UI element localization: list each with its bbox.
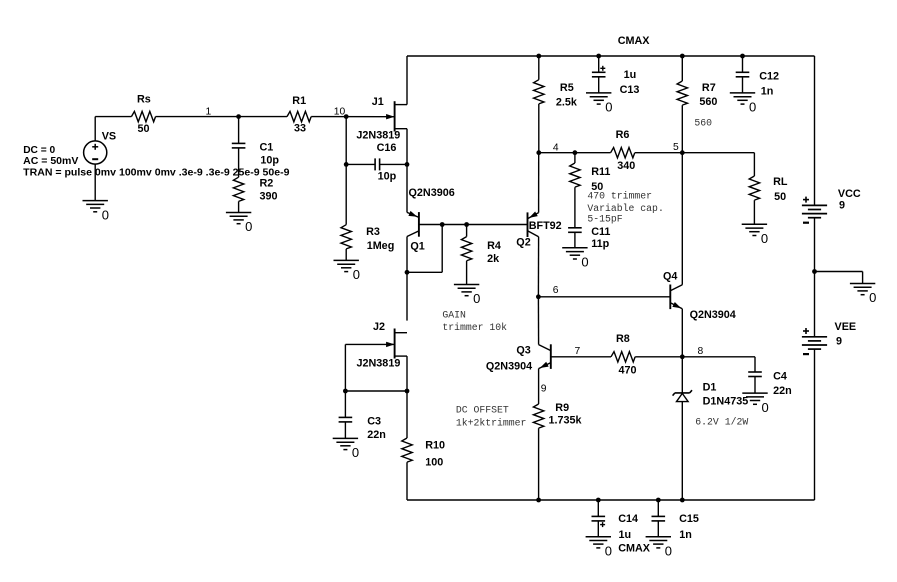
svg-text:470: 470 bbox=[619, 364, 637, 376]
svg-text:9: 9 bbox=[839, 200, 845, 212]
svg-text:DC OFFSET: DC OFFSET bbox=[456, 404, 509, 415]
capacitor C3 bbox=[339, 416, 353, 418]
svg-text:R4: R4 bbox=[487, 240, 501, 252]
svg-text:J1: J1 bbox=[372, 96, 384, 108]
wire Q3 emitter to R9 (node 9) bbox=[538, 369, 540, 404]
svg-text:C4: C4 bbox=[773, 371, 787, 383]
svg-text:DC = 0: DC = 0 bbox=[23, 145, 55, 156]
wire gate junction to J2 source column bbox=[345, 390, 407, 392]
wire VS top riser bbox=[94, 117, 96, 141]
wire D1 to bottom rail bbox=[681, 402, 683, 500]
resistor R2 bbox=[233, 177, 243, 201]
svg-text:C1: C1 bbox=[260, 142, 274, 154]
svg-text:Q2N3904: Q2N3904 bbox=[690, 309, 736, 321]
wire VS to Rs bbox=[95, 116, 131, 118]
junction supply mid bbox=[812, 269, 817, 274]
svg-text:GAIN: GAIN bbox=[442, 309, 466, 320]
wire C14 to ground bbox=[597, 521, 599, 537]
svg-text:R6: R6 bbox=[616, 129, 630, 141]
wire R7 to node 5 bbox=[681, 105, 683, 153]
svg-text:50: 50 bbox=[138, 123, 150, 135]
wire node 8 to D1 bbox=[681, 357, 683, 393]
junction node 1 bbox=[236, 114, 241, 119]
svg-text:0: 0 bbox=[352, 445, 359, 460]
wire J2 gate riser down bbox=[344, 344, 346, 391]
svg-text:R9: R9 bbox=[555, 402, 569, 414]
resistor R1 bbox=[287, 111, 311, 121]
svg-text:22n: 22n bbox=[773, 385, 792, 397]
svg-text:0: 0 bbox=[245, 219, 252, 234]
junction C16 right bbox=[405, 162, 410, 167]
wire VEE to bottom rail bbox=[814, 349, 816, 500]
junction node 6 bbox=[536, 294, 541, 299]
svg-text:1Meg: 1Meg bbox=[367, 240, 395, 252]
wire R10 to bottom rail bbox=[406, 462, 408, 500]
wire node1 to C1 bbox=[238, 117, 240, 144]
ground VS bbox=[83, 200, 108, 202]
svg-text:0: 0 bbox=[605, 543, 612, 558]
svg-text:R10: R10 bbox=[425, 439, 445, 451]
JFET J2 J2N3819 bbox=[394, 329, 396, 359]
svg-text:BFT92: BFT92 bbox=[529, 220, 562, 232]
svg-text:50: 50 bbox=[774, 191, 786, 203]
svg-text:R2: R2 bbox=[260, 178, 274, 190]
wire node 5 to RL bbox=[682, 152, 754, 154]
ground R2 bbox=[226, 212, 251, 214]
junction node 8 bbox=[680, 354, 685, 359]
junction Q1 collector tie bbox=[405, 270, 410, 275]
JFET J1 J2N3819 bbox=[394, 101, 396, 131]
junction bottom C14 bbox=[596, 498, 601, 503]
wire to R4 bbox=[466, 225, 468, 237]
capacitor C1 bbox=[232, 142, 246, 144]
svg-text:C3: C3 bbox=[367, 416, 381, 428]
wire Rs to R1 (node 1) bbox=[156, 116, 288, 118]
capacitor C4 bbox=[748, 371, 762, 373]
ground C13 bbox=[586, 92, 611, 94]
ground C12 bbox=[730, 92, 755, 94]
wire Q1 collector to J2 drain (open stub) bbox=[406, 272, 408, 320]
junction node 5 bbox=[680, 150, 685, 155]
svg-text:10p: 10p bbox=[378, 170, 397, 182]
svg-text:1n: 1n bbox=[679, 529, 692, 541]
svg-text:9: 9 bbox=[541, 384, 547, 395]
svg-text:VS: VS bbox=[102, 130, 116, 142]
wire C12 to ground bbox=[742, 77, 744, 93]
junction bottom D1 bbox=[680, 498, 685, 503]
svg-text:C15: C15 bbox=[679, 513, 699, 525]
svg-text:0: 0 bbox=[665, 543, 672, 558]
wire to C16 bbox=[346, 163, 375, 165]
svg-text:7: 7 bbox=[575, 346, 581, 357]
junction base tie bbox=[440, 222, 445, 227]
wire Q2 collector down to node 6 bbox=[537, 237, 539, 297]
resistor R6 bbox=[611, 148, 635, 158]
svg-text:0: 0 bbox=[869, 290, 876, 305]
svg-text:R3: R3 bbox=[366, 226, 380, 238]
wire node4 to R11 bbox=[574, 153, 576, 163]
svg-text:J2N3819: J2N3819 bbox=[357, 357, 401, 369]
svg-text:0: 0 bbox=[761, 231, 768, 246]
junction C3 top bbox=[343, 389, 348, 394]
zener diode D1 D1N4735 bbox=[673, 390, 692, 395]
wire node 8 to C4 bbox=[682, 356, 755, 358]
svg-text:0: 0 bbox=[749, 100, 756, 115]
wire rail to C12 bbox=[742, 56, 744, 72]
wire C4 to ground bbox=[754, 377, 756, 394]
svg-text:22n: 22n bbox=[367, 429, 386, 441]
resistor R7 bbox=[677, 81, 687, 105]
wire collector tie horizontal bbox=[407, 271, 442, 273]
svg-text:2k: 2k bbox=[487, 253, 500, 265]
ground R3 bbox=[334, 259, 359, 261]
svg-text:33: 33 bbox=[294, 123, 306, 135]
wire node 4 to R6 bbox=[539, 152, 611, 154]
wire C4 top riser bbox=[754, 357, 756, 372]
svg-text:CMAX: CMAX bbox=[618, 35, 651, 47]
svg-text:1n: 1n bbox=[761, 85, 774, 97]
wire right rail top bbox=[814, 56, 816, 205]
ground supply mid bbox=[850, 283, 875, 285]
svg-text:VEE: VEE bbox=[835, 321, 857, 333]
svg-text:C11: C11 bbox=[591, 226, 610, 238]
wire collector tie riser bbox=[441, 225, 443, 273]
wire rail to R5 bbox=[538, 56, 540, 80]
resistor R3 bbox=[341, 225, 351, 249]
resistor R5 bbox=[534, 80, 544, 104]
svg-text:C13: C13 bbox=[620, 84, 640, 96]
wire node10 down to C16 bbox=[345, 117, 347, 165]
svg-text:D1N4735: D1N4735 bbox=[703, 396, 749, 408]
wire junction to R10 bbox=[406, 391, 408, 438]
wire C11 to ground bbox=[574, 232, 576, 248]
wire R5 to node 4 bbox=[538, 104, 540, 153]
svg-text:D1: D1 bbox=[703, 382, 717, 394]
svg-text:340: 340 bbox=[617, 160, 635, 172]
ground C4 bbox=[742, 392, 767, 394]
svg-text:1.735k: 1.735k bbox=[549, 415, 583, 427]
svg-text:AC = 50mV: AC = 50mV bbox=[23, 156, 78, 167]
wire top rail left riser to J1 drain bbox=[406, 56, 408, 105]
junction node 4 bbox=[536, 150, 541, 155]
svg-text:9: 9 bbox=[836, 336, 842, 348]
wire J2 gate left bbox=[345, 343, 394, 345]
wire R3 to ground bbox=[345, 249, 347, 261]
junction bottom R9 bbox=[536, 498, 541, 503]
wire R1 to J1 gate (node 10) bbox=[311, 116, 394, 118]
svg-text:5: 5 bbox=[673, 142, 679, 153]
svg-text:2.5k: 2.5k bbox=[556, 97, 578, 109]
wire VCC to mid junction bbox=[814, 218, 816, 272]
svg-text:560: 560 bbox=[694, 117, 712, 128]
wire C16 left column to R3 bbox=[345, 164, 347, 224]
svg-text:TRAN = pulse 0mv 100mv 0mv .3e: TRAN = pulse 0mv 100mv 0mv .3e-9 .3e-9 2… bbox=[23, 168, 290, 179]
wire node5 down to Q4 collector bbox=[681, 153, 683, 285]
capacitor C12 bbox=[736, 71, 750, 73]
transistor Q2 BFT92 (PNP) bbox=[527, 212, 529, 237]
svg-text:J2: J2 bbox=[373, 321, 385, 333]
svg-text:CMAX: CMAX bbox=[618, 543, 651, 555]
resistor R8 bbox=[611, 352, 635, 362]
svg-text:VCC: VCC bbox=[838, 188, 861, 200]
svg-text:8: 8 bbox=[698, 346, 704, 357]
transistor Q1 Q2N3906 (PNP) bbox=[418, 212, 420, 237]
svg-text:Q1: Q1 bbox=[410, 241, 424, 253]
svg-text:0: 0 bbox=[605, 100, 612, 115]
svg-text:6.2V 1/2W: 6.2V 1/2W bbox=[695, 417, 748, 428]
capacitor C16 bbox=[374, 158, 376, 170]
wire R8 to node 8 bbox=[635, 356, 682, 358]
wire C15 to ground bbox=[657, 521, 659, 537]
svg-text:390: 390 bbox=[260, 191, 278, 203]
resistor R4 bbox=[461, 237, 471, 261]
wire Q3 base to R8 (node 7) bbox=[551, 356, 611, 358]
wire bottom rail bbox=[407, 499, 815, 501]
capacitor C15 bbox=[652, 515, 666, 517]
svg-text:10p: 10p bbox=[260, 154, 279, 166]
wire Q1 base to Q2 base bbox=[419, 224, 528, 226]
wire R11 to C11 bbox=[574, 187, 576, 228]
junction rail C12 bbox=[740, 54, 745, 59]
svg-text:Q2N3906: Q2N3906 bbox=[409, 187, 455, 199]
svg-text:4: 4 bbox=[553, 142, 559, 153]
svg-text:C12: C12 bbox=[759, 70, 779, 82]
svg-text:RL: RL bbox=[773, 176, 788, 188]
svg-text:Q2: Q2 bbox=[516, 236, 530, 248]
junction J2 source / R10 bbox=[405, 389, 410, 394]
svg-text:470 trimmer: 470 trimmer bbox=[587, 190, 652, 201]
resistor R11 bbox=[570, 163, 580, 187]
wire rail to C14 bbox=[597, 500, 599, 516]
svg-text:R5: R5 bbox=[560, 82, 574, 94]
wire R4 to ground bbox=[466, 261, 468, 285]
svg-text:0: 0 bbox=[581, 255, 588, 270]
wire C1 to R2 bbox=[238, 148, 240, 177]
svg-text:1u: 1u bbox=[624, 69, 637, 81]
wire J1 source down bbox=[406, 129, 408, 165]
junction C16 left bbox=[344, 162, 349, 167]
resistor R10 bbox=[402, 438, 412, 462]
wire Q2 emitter riser to node 4 bbox=[538, 153, 540, 213]
svg-text:10: 10 bbox=[334, 107, 346, 118]
wire Q4 emitter to node 8 bbox=[681, 309, 683, 357]
transistor Q4 Q2N3904 (NPN) bbox=[669, 285, 671, 310]
wire node6 down to Q3 collector bbox=[537, 297, 539, 345]
wire RL to ground bbox=[753, 200, 755, 224]
resistor Rs bbox=[131, 111, 155, 121]
ground C11 bbox=[562, 247, 587, 249]
capacitor C14 (polarized) bbox=[592, 515, 606, 517]
svg-text:J2N3819: J2N3819 bbox=[356, 130, 400, 142]
wire Q1 collector down bbox=[406, 237, 408, 273]
wire mid junction to VEE bbox=[814, 272, 816, 337]
battery VCC 9V bbox=[802, 204, 827, 206]
battery VEE 9V bbox=[802, 336, 827, 338]
junction rail C13 bbox=[596, 54, 601, 59]
svg-text:trimmer 10k: trimmer 10k bbox=[442, 322, 507, 333]
svg-text:560: 560 bbox=[699, 96, 717, 108]
junction bottom C15 bbox=[656, 498, 661, 503]
wire node 6 (Q2/Q3 to Q4 base) bbox=[538, 296, 670, 298]
svg-text:0: 0 bbox=[353, 267, 360, 282]
ground C14 bbox=[586, 536, 611, 538]
resistor R9 bbox=[533, 404, 543, 428]
wire C16 junction down to Q1 emitter bbox=[406, 164, 408, 212]
svg-text:Q2N3904: Q2N3904 bbox=[486, 360, 532, 372]
svg-text:6: 6 bbox=[553, 285, 559, 296]
wire rail to R7 bbox=[681, 56, 683, 81]
wire R9 to bottom rail bbox=[538, 428, 540, 500]
ground RL bbox=[742, 223, 767, 225]
svg-text:0: 0 bbox=[473, 291, 480, 306]
wire top supply rail bbox=[407, 55, 815, 57]
capacitor C13 (polarized) bbox=[592, 71, 606, 73]
svg-text:Rs: Rs bbox=[137, 94, 151, 106]
junction rail R7 bbox=[680, 54, 685, 59]
junction R4 top bbox=[464, 222, 469, 227]
junction node 10 bbox=[344, 114, 349, 119]
ground R4 bbox=[454, 284, 479, 286]
svg-text:1u: 1u bbox=[619, 529, 632, 541]
svg-text:1k+2ktrimmer: 1k+2ktrimmer bbox=[456, 418, 527, 429]
svg-text:0: 0 bbox=[762, 400, 769, 415]
svg-text:5-15pF: 5-15pF bbox=[587, 214, 622, 225]
wire J2 source down bbox=[406, 356, 408, 391]
svg-text:C14: C14 bbox=[618, 513, 638, 525]
svg-text:R11: R11 bbox=[591, 166, 610, 178]
wire VS bottom to ground bbox=[94, 164, 96, 201]
svg-text:11p: 11p bbox=[591, 238, 609, 250]
svg-text:R7: R7 bbox=[702, 82, 716, 94]
svg-text:R8: R8 bbox=[616, 333, 630, 345]
wire C13 to ground bbox=[598, 77, 600, 93]
resistor RL bbox=[749, 176, 759, 200]
voltage source VS bbox=[84, 141, 107, 164]
svg-text:Q4: Q4 bbox=[663, 271, 677, 283]
wire C16 to J1 source column bbox=[380, 163, 407, 165]
wire R6 to node 5 bbox=[635, 152, 683, 154]
wire R2 to ground bbox=[238, 201, 240, 212]
svg-text:Q3: Q3 bbox=[516, 344, 530, 356]
svg-text:Variable cap.: Variable cap. bbox=[587, 203, 663, 214]
svg-text:1: 1 bbox=[206, 107, 212, 118]
wire rail to C13 bbox=[598, 56, 600, 72]
svg-text:0: 0 bbox=[102, 207, 109, 222]
svg-text:R1: R1 bbox=[292, 95, 306, 107]
ground C15 bbox=[646, 536, 671, 538]
capacitor C11 bbox=[568, 227, 582, 229]
wire mid junction to ground bbox=[815, 271, 863, 273]
capacitor C3 wire bbox=[344, 391, 346, 417]
svg-text:100: 100 bbox=[425, 456, 443, 468]
wire rail to C15 bbox=[657, 500, 659, 516]
transistor Q3 Q2N3904 (NPN mirrored) bbox=[550, 344, 552, 369]
svg-text:C16: C16 bbox=[377, 142, 397, 154]
junction R11 top bbox=[573, 150, 578, 155]
wire C3 to ground bbox=[344, 422, 346, 439]
ground C3 bbox=[333, 437, 358, 439]
wire RL top riser bbox=[753, 153, 755, 176]
junction rail R5 bbox=[536, 54, 541, 59]
